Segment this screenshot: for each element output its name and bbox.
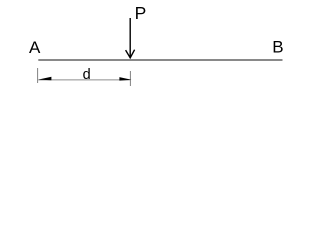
left dimension arrowhead: [38, 77, 51, 81]
dimension line d: [38, 79, 130, 81]
svg-text:P: P: [135, 3, 147, 23]
svg-text:B: B: [272, 37, 283, 56]
right extension line: [129, 71, 131, 86]
svg-text:d: d: [83, 67, 91, 83]
right dimension arrowhead: [119, 77, 131, 81]
svg-text:A: A: [29, 38, 41, 57]
beam AB: [38, 59, 282, 61]
left extension line: [37, 68, 39, 83]
force arrow P: [126, 18, 135, 58]
